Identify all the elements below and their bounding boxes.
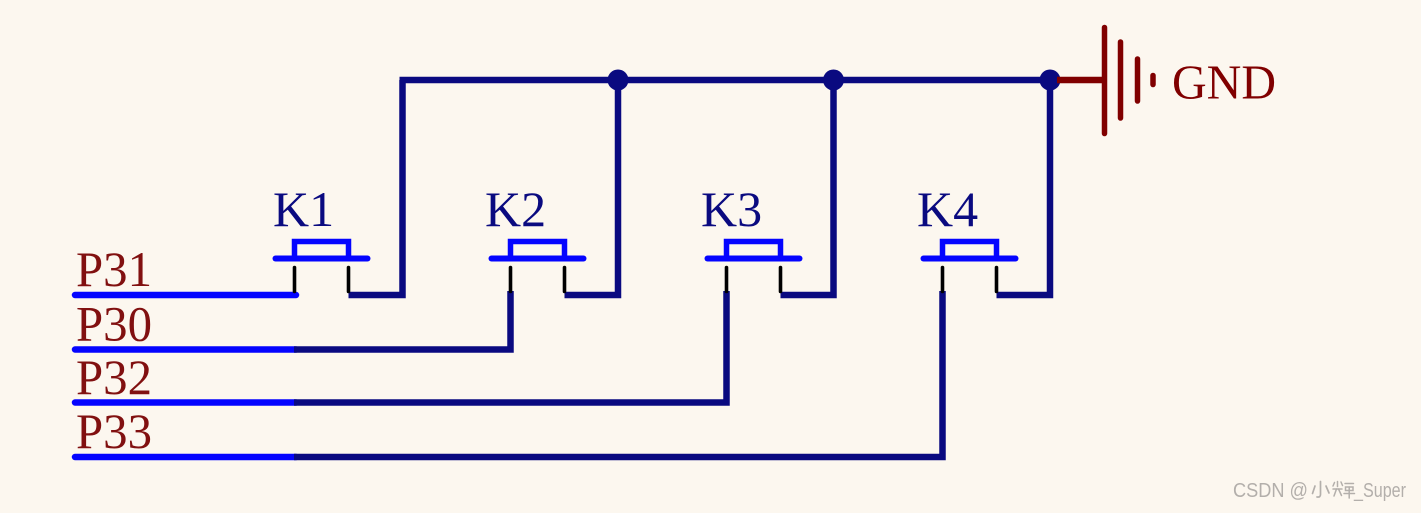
wire: P32 net to K3 left contact [294, 291, 727, 403]
pin 1 of K4 (black) [941, 268, 945, 292]
pin 1 of K2 (black) [509, 268, 513, 292]
svg-text:K3: K3 [701, 181, 762, 237]
wire: riser from K4 right contact up to bus [997, 80, 1051, 295]
svg-text:_Super: _Super [1353, 480, 1406, 502]
svg-text:K2: K2 [485, 181, 546, 237]
svg-text:K4: K4 [917, 181, 978, 237]
wire: P32 net stub (blue) [75, 399, 296, 406]
wire: top ground bus (horizontal rail) [400, 77, 1051, 84]
wire: P33 net stub (blue) [75, 454, 296, 461]
pin 2 of K4 (black) [995, 268, 999, 292]
pin 2 of K1 (black) [347, 268, 351, 292]
ground symbol GND (maroon bars) [1105, 28, 1154, 134]
svg-text:GND: GND [1172, 55, 1276, 110]
watermark glyph: hui [1333, 482, 1355, 499]
svg-text:P32: P32 [76, 349, 152, 405]
push button K2 symbol body (blue) [492, 242, 584, 261]
watermark glyph: xiao [1313, 482, 1330, 498]
pin 2 of K2 (black) [563, 268, 567, 292]
push button K4 symbol body (blue) [924, 242, 1016, 261]
wire: P31 net stub (blue) [75, 292, 296, 299]
junction dot at K3 riser / bus [823, 70, 844, 91]
junction dot at K4 riser / GND [1040, 70, 1061, 91]
wire: riser from K3 right contact up to bus [781, 80, 834, 295]
svg-text:P30: P30 [76, 296, 152, 352]
watermark: CSDN @xiaohui_Super [1233, 480, 1406, 502]
junction dot at K2 riser / bus [608, 70, 629, 91]
pin 1 of K1 (black) [293, 268, 297, 292]
svg-text:P31: P31 [76, 241, 152, 297]
pin 1 of K3 (black) [725, 268, 729, 292]
wire: P30 net stub (blue) [75, 346, 296, 353]
svg-text:P33: P33 [76, 403, 152, 459]
wire: maroon stub from junction to ground symbol [1057, 77, 1104, 84]
wire: riser from K1 right contact up to bus [349, 80, 403, 295]
push button K3 symbol body (blue) [708, 242, 800, 261]
svg-text:CSDN @: CSDN @ [1233, 480, 1308, 502]
wire: riser from K2 right contact up to bus [565, 80, 619, 295]
svg-text:K1: K1 [273, 181, 334, 237]
pin 2 of K3 (black) [779, 268, 783, 292]
wire: P33 net to K4 left contact [294, 291, 943, 457]
push button K1 symbol body (blue) [276, 242, 368, 261]
wire: P30 net to K1... to K2 left contact [294, 291, 511, 350]
